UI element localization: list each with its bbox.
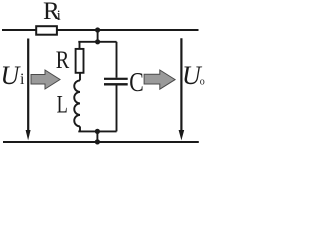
svg-text:o: o bbox=[200, 76, 205, 87]
svg-text:i: i bbox=[57, 8, 61, 24]
svg-text:L: L bbox=[57, 91, 68, 118]
svg-text:R: R bbox=[56, 47, 70, 74]
svg-text:U: U bbox=[1, 61, 22, 90]
svg-text:C: C bbox=[129, 67, 144, 97]
svg-text:i: i bbox=[20, 71, 25, 88]
